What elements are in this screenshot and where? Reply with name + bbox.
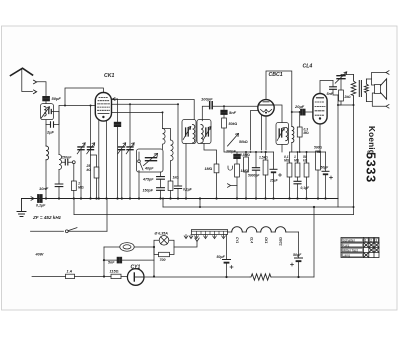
wire 1M to bus (216, 173, 218, 199)
wire 20uF to CL4 grid (292, 111, 313, 113)
wire secondary top (291, 112, 293, 127)
svg-text:CL4: CL4 (250, 237, 254, 243)
svg-text:200pF: 200pF (225, 150, 237, 154)
heater winding row (228, 231, 299, 233)
capacitor 0,1uF bus (38, 195, 43, 203)
wire 150pF link (62, 161, 72, 163)
coil L2 (46, 146, 49, 160)
svg-text:475pF: 475pF (142, 178, 154, 182)
spare socket left (184, 235, 188, 239)
bus right corner (337, 199, 339, 208)
CL4 cathode dot (319, 117, 321, 119)
capacitor 5nF (221, 110, 227, 114)
wire L5 to resistor (170, 161, 172, 181)
wire resistor to bus (170, 191, 172, 199)
svg-text:5000pF: 5000pF (248, 174, 260, 178)
CBC1 diode plates (261, 110, 272, 113)
svg-text:40pF: 40pF (144, 167, 154, 171)
resistor 1kOhm (168, 181, 173, 191)
selector tap 4 (222, 235, 226, 239)
svg-text:1: 1 (365, 239, 367, 243)
svg-text:CL4: CL4 (303, 64, 313, 70)
svg-text:CBC1: CBC1 (279, 237, 283, 246)
wire resistor to bus (73, 191, 75, 199)
wire HT corner left (162, 199, 164, 208)
selector tap arrow (195, 238, 199, 242)
bus junction dots (45, 197, 327, 199)
svg-text:100pF: 100pF (201, 97, 213, 102)
wire CK1 top cap (65, 88, 103, 106)
speaker terminal bottom (386, 105, 389, 109)
wire vertical grid feed (90, 106, 92, 199)
svg-text:MΩ: MΩ (304, 131, 310, 135)
resistor 1MOhm out (295, 163, 300, 177)
resistor 0,1MOhm (287, 163, 292, 177)
rail nodes (297, 151, 319, 153)
wire pot to 200pF (236, 152, 238, 154)
antenna coil L1 box (41, 104, 54, 120)
wire CL4 cathode down (319, 124, 321, 152)
svg-text:150pF: 150pF (143, 189, 154, 193)
wire L3 to cap (58, 170, 60, 184)
fuse oval inner (123, 245, 131, 249)
antenna coil L1 winding (44, 107, 46, 117)
wire legs (325, 152, 327, 199)
capacitor 10nF (55, 184, 63, 187)
trimmer 40pF (146, 158, 157, 161)
tuning C1a arrow (77, 143, 85, 154)
node (337, 104, 339, 106)
trimmer 40pF arrow (144, 154, 158, 166)
svg-text:CBC1: CBC1 (269, 72, 283, 78)
node (291, 111, 293, 113)
node (103, 259, 105, 261)
wire secondary bottom to terminal (366, 102, 386, 107)
spare socket right (189, 235, 193, 239)
plus sign (279, 174, 282, 177)
node (353, 206, 355, 208)
svg-text:1 A: 1 A (67, 270, 73, 274)
selector tap 2 (204, 235, 208, 239)
wire 50uF B to heater line (298, 262, 300, 277)
plus sign (230, 266, 233, 269)
resistor 1,5kOhm (263, 160, 268, 175)
wire 5nF legs (333, 81, 338, 96)
capacitor in box right (49, 110, 52, 114)
CK1 grid dashes (98, 98, 110, 114)
chassis bus (22, 198, 339, 200)
switch contact S1 (72, 161, 75, 164)
antenna socket lower (34, 90, 37, 94)
wire CBC1 pin down (261, 115, 263, 150)
T2 secondary coil (292, 127, 294, 143)
detector rail (237, 151, 274, 153)
tone cap arrow (335, 72, 347, 83)
wire box cap to node (51, 111, 59, 113)
CY1 anode lead (134, 276, 144, 278)
oscillator coil L4 (163, 112, 166, 149)
wire cap to coil box (45, 101, 47, 104)
wire oval to lamp (134, 246, 154, 248)
wire box bottom down (45, 120, 47, 125)
lamp cross (161, 237, 168, 244)
node (223, 105, 225, 107)
wire legs (297, 152, 299, 181)
wire grid resistor legs (299, 112, 301, 152)
svg-text:CY1: CY1 (131, 265, 141, 271)
wire switch to bus (106, 199, 108, 232)
wire AVC drop to lower rail (73, 199, 75, 215)
band switch lever (140, 163, 143, 171)
svg-text:1,5kΩ: 1,5kΩ (259, 156, 268, 160)
wire IF line (112, 103, 179, 105)
potentiometer arrow (228, 134, 239, 147)
wire tone top (341, 75, 354, 76)
fuse 1A (66, 274, 75, 278)
wire lamp node down (153, 247, 155, 277)
coil L3 (59, 155, 62, 170)
wire to bus (297, 184, 299, 199)
svg-text:20µF: 20µF (294, 104, 305, 109)
wire 5nF branch (104, 259, 154, 261)
svg-text:150pF: 150pF (61, 156, 72, 160)
wire 10nF to bus (58, 187, 60, 199)
transformer core (359, 81, 361, 97)
T1 secondary coil (201, 125, 203, 143)
svg-text:1kΩ: 1kΩ (173, 176, 180, 180)
pickup terminal (228, 184, 238, 188)
wire heater end down (298, 232, 300, 258)
wire det resistor to bus (236, 177, 238, 199)
node (103, 275, 105, 277)
resistor 1MOhm grid (214, 164, 219, 173)
capacitor 5nF anode (330, 87, 337, 90)
svg-text:Kurz: Kurz (343, 244, 350, 248)
wire lamp branch vertical (103, 247, 105, 277)
node (225, 276, 227, 278)
wire node to grid line (59, 106, 95, 112)
band switch S2 (138, 152, 140, 160)
table crosses (364, 243, 379, 257)
wire cap to bus (177, 189, 179, 199)
mains switch contact (65, 230, 68, 233)
resistor zigzag (250, 274, 272, 280)
wire to bus (245, 152, 247, 199)
wire T1 primary to bus (185, 144, 187, 199)
svg-text:MΩ: MΩ (284, 159, 290, 163)
node (64, 105, 66, 107)
node (255, 151, 257, 153)
plus sign (330, 176, 333, 179)
CY1 cathode bar (133, 273, 135, 281)
wire CBC1 anode top (266, 71, 292, 112)
lamp loop (154, 240, 174, 254)
antenna socket upper (34, 80, 37, 84)
wire CK1 anode arrow (112, 98, 117, 101)
wire 475pF to 150pF (160, 179, 162, 187)
wire switch to bus (138, 171, 140, 199)
wire selector to heater chain (226, 235, 228, 260)
heater bump CBC1 (275, 227, 286, 232)
AVC rail (74, 214, 354, 216)
wire to resistor 25k (91, 155, 97, 167)
wire C2 bottom leg (121, 150, 123, 199)
capacitor 200pF (234, 154, 240, 158)
resistor 115Ohm (111, 274, 121, 278)
resistor 500Ohm cathode (316, 151, 321, 170)
node (162, 111, 164, 113)
wire anode drop with 100pF (117, 99, 119, 122)
wire 2uF leads (46, 112, 59, 125)
capacitor 20uF coupling (301, 109, 305, 115)
wire socket to C ant (37, 82, 46, 96)
rectifier CY1 (127, 269, 144, 286)
T1 primary trimmer (186, 128, 189, 136)
node (306, 151, 308, 153)
wire CK1 pin left-bottom (98, 120, 100, 199)
tuning C2a arrow (118, 143, 126, 154)
antenna coil arrow (41, 107, 50, 119)
svg-text:50µF: 50µF (217, 255, 226, 259)
wire legs (317, 151, 319, 199)
output transformer primary (351, 75, 356, 106)
wire voice coil links (372, 79, 375, 102)
capacitor 0,1uF (294, 181, 301, 184)
svg-text:50kΩ: 50kΩ (229, 122, 238, 126)
capacitor 5000pF (252, 168, 259, 171)
svg-text:50pF: 50pF (52, 96, 62, 101)
CL4 grid dashes (315, 102, 325, 115)
wire OT B+ drop (353, 105, 355, 207)
tone capacitor variable (337, 76, 345, 79)
svg-text:3: 3 (375, 239, 377, 243)
electrolytic 50uF B (295, 257, 303, 259)
capacitor 50pF (43, 97, 50, 101)
T1 secondary arrow (203, 127, 211, 140)
wire 25k to bus (96, 178, 98, 199)
svg-text:ZF = 452 kHz: ZF = 452 kHz (32, 215, 62, 220)
IF transformer T1 secondary box (197, 120, 211, 144)
wire osc screen drop (177, 104, 179, 185)
svg-text:5333: 5333 (364, 152, 378, 183)
capacitor 150pF (65, 160, 68, 166)
capacitor 2uF series (51, 122, 54, 127)
wire right corner (353, 207, 355, 215)
oscillator coil L5 (171, 140, 174, 161)
svg-text:0,5MΩ: 0,5MΩ (240, 153, 250, 157)
svg-text:kΩ: kΩ (303, 159, 308, 163)
node (90, 105, 92, 107)
plus sign (291, 263, 294, 266)
wire CK1 pin right-bottom (106, 121, 108, 199)
electrolytic 25uF (270, 168, 277, 170)
tuning capacitor C2a (119, 147, 125, 150)
svg-text:CK1: CK1 (104, 73, 114, 79)
wire lamp to selector (174, 241, 197, 247)
T2 trimmer (279, 129, 282, 137)
tuning C2b arrow (126, 143, 134, 154)
T1 primary coil (193, 125, 195, 143)
wire secondary bottom (291, 143, 293, 153)
capacitor 475pF (157, 177, 165, 180)
node (153, 275, 155, 277)
fuse oval (120, 243, 134, 252)
svg-text:1MΩ: 1MΩ (205, 167, 213, 171)
svg-text:Mittel Tast: Mittel Tast (343, 249, 358, 253)
svg-text:kΩ: kΩ (87, 168, 92, 172)
speaker magnet (375, 85, 381, 94)
CBC1 cathode dot (265, 112, 267, 114)
resistor 700 (159, 252, 170, 256)
tuning capacitor C2b (127, 147, 133, 150)
IF transformer T1 primary box (182, 120, 196, 144)
svg-text:Koenig: Koenig (367, 126, 376, 155)
tube CL4 (313, 94, 327, 124)
wire 200pF to 1M (236, 159, 238, 165)
voltage selector bar (192, 230, 228, 235)
wire tone bottom (338, 101, 341, 105)
wire screen line (112, 111, 163, 113)
svg-text:0,1µF: 0,1µF (36, 204, 46, 208)
wire 50uF to heater line (226, 264, 228, 277)
svg-text:Lang: Lang (343, 254, 351, 258)
tube CK1 (95, 93, 111, 122)
switch table frame (341, 238, 379, 258)
wire osc feed vertical (129, 104, 131, 198)
wire C1 bottom leg (80, 150, 82, 199)
node (129, 103, 131, 105)
node (299, 111, 301, 113)
svg-text:5nF: 5nF (108, 261, 115, 265)
svg-text:2: 2 (370, 239, 372, 243)
node (177, 197, 179, 199)
wire box to 475pF (160, 172, 162, 176)
node (162, 198, 164, 200)
node (297, 276, 299, 278)
heater bump CL4 (246, 227, 257, 232)
CK1 cathode dot (102, 116, 104, 118)
capacitor 100pF series (210, 102, 213, 109)
svg-text:500Ω: 500Ω (314, 146, 323, 150)
wire 5nF to 50k (223, 114, 225, 118)
node (313, 206, 315, 208)
svg-text:50kΩ: 50kΩ (239, 140, 248, 144)
node (265, 151, 267, 153)
node (153, 246, 155, 248)
node (245, 151, 247, 153)
wire T2 box bottom (281, 145, 283, 153)
heater bump CK1 (261, 227, 272, 232)
wire 150pF to bus (160, 190, 162, 198)
wire antenna stem (22, 69, 33, 92)
resistor 50kOhm out (304, 163, 309, 177)
ground (17, 199, 26, 217)
bias rail (290, 151, 326, 153)
ground terminal arrow (31, 197, 34, 201)
svg-text:0,1µF: 0,1µF (183, 188, 193, 192)
heater bump CY1 (232, 227, 243, 232)
tuning capacitor C1b (88, 147, 94, 150)
svg-text:CY1: CY1 (235, 237, 239, 243)
capacitor 100pF (114, 122, 120, 126)
resistor 25kOhm (94, 167, 99, 178)
wire 100pF to bus (117, 127, 119, 199)
wire legs (289, 152, 291, 199)
svg-text:MΩ: MΩ (294, 159, 300, 163)
band switch contact (138, 160, 141, 163)
wire L2 to bus (45, 160, 47, 199)
node (353, 104, 355, 106)
wire 5000pF legs (255, 152, 257, 199)
node (319, 151, 321, 153)
svg-text:50µF: 50µF (321, 166, 330, 170)
mains switch line (31, 230, 108, 232)
svg-text:2µF: 2µF (46, 130, 55, 135)
speaker cone (381, 79, 387, 99)
resistor 2kOhm tone (339, 90, 344, 101)
wire legs (306, 152, 308, 199)
wire tone mid (340, 79, 342, 90)
wire T1 secondary bottom (204, 144, 217, 165)
svg-text:115Ω: 115Ω (110, 270, 119, 274)
wire switch to resistor (73, 164, 75, 181)
mains line (32, 276, 127, 278)
tuning C1b arrow (87, 143, 95, 154)
wire primary bottom (338, 104, 354, 106)
svg-text:700: 700 (160, 258, 166, 262)
resistor 1MOhm (72, 181, 77, 191)
dial lamp (159, 236, 169, 246)
selector tap 3 (213, 235, 217, 239)
selector tap 1 (195, 235, 199, 239)
svg-text:Schalter: Schalter (343, 239, 356, 243)
wire node down to L3 (58, 112, 60, 155)
wire 50k to pot (224, 128, 237, 152)
wire lamp branch (104, 246, 120, 248)
electrolytic 50uF cathode (322, 170, 329, 172)
speaker terminal top (386, 71, 389, 75)
capacitor 0,1uF osc (174, 186, 181, 189)
node (177, 103, 179, 105)
T1 trimmer arrow (183, 127, 191, 140)
rail nodes (250, 151, 267, 153)
capacitor 5nF mains (117, 257, 121, 263)
T2 primary coil (286, 128, 288, 141)
wire heater to HT rail (313, 207, 315, 277)
padder box (137, 149, 164, 172)
svg-text:CK1: CK1 (264, 237, 268, 244)
IF transformer T2 box (276, 123, 289, 145)
electrolytic 50uF heater (223, 259, 231, 261)
svg-text:40W: 40W (35, 253, 44, 257)
wire HT drop (199, 199, 201, 208)
svg-text:1MΩ: 1MΩ (241, 169, 249, 173)
node (199, 206, 201, 208)
grid resistor 0,3MOhm (297, 127, 302, 137)
antenna (11, 68, 33, 75)
resistor 0,5MOhm (244, 157, 249, 172)
wire legs (265, 152, 267, 199)
HT rail (163, 206, 354, 208)
selector bar inner line (192, 230, 228, 232)
table inner label boxes (342, 238, 378, 256)
jack symbol (228, 166, 232, 170)
wire 25uF legs (273, 152, 275, 199)
output transformer secondary (364, 79, 368, 102)
tube CBC1 (258, 100, 274, 116)
T2 trimmer arrow (277, 128, 284, 141)
resistor 1MOhm det (235, 164, 240, 177)
